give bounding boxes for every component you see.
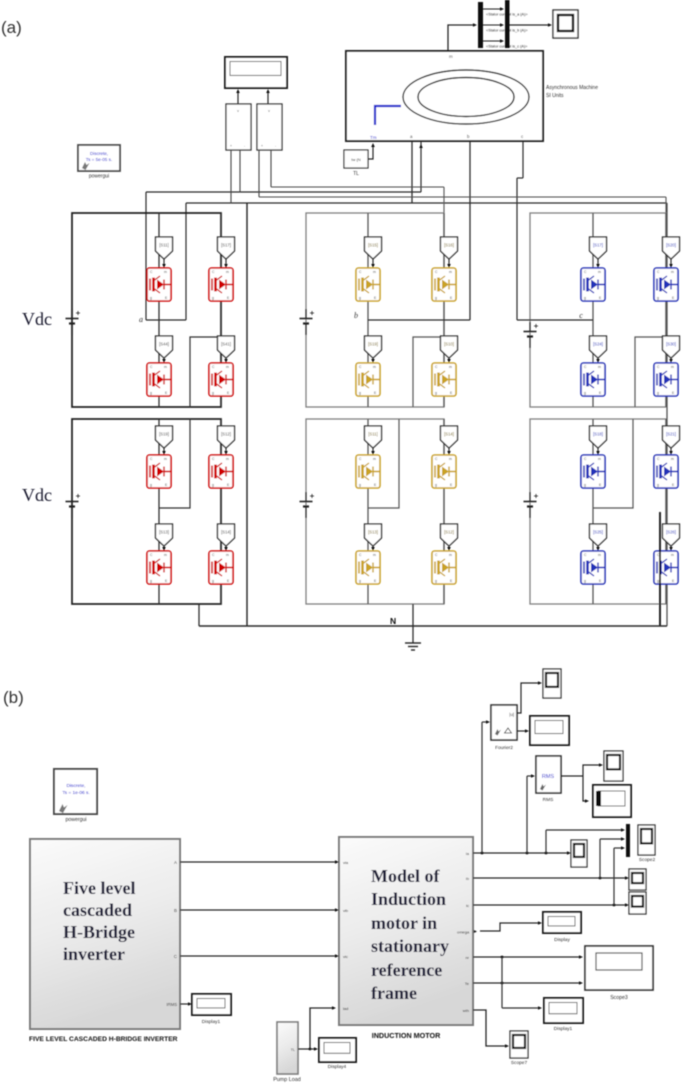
svg-text:[S19]: [S19] bbox=[368, 342, 378, 347]
wire gate arrow S12 bbox=[225, 448, 227, 454]
arrowhead B bbox=[335, 908, 339, 912]
wire gate arrow S11 bbox=[163, 259, 165, 267]
svg-text:m: m bbox=[671, 553, 674, 557]
arrowhead mux3 bbox=[621, 846, 625, 850]
wire bus selector signal 3 bbox=[483, 40, 501, 42]
IGBT S18 (blue cell2 left top) bbox=[581, 455, 605, 488]
svg-text:[S41]: [S41] bbox=[221, 342, 231, 347]
arrowhead IRMS bbox=[188, 1002, 192, 1006]
from tag S19 (red cell2 left top) bbox=[156, 426, 173, 448]
wire gate arrow S10 bbox=[448, 358, 450, 362]
svg-text:Pump Load: Pump Load bbox=[273, 1077, 301, 1083]
wire yellow leg to ground bbox=[412, 604, 414, 643]
svg-text:m: m bbox=[449, 54, 453, 59]
svg-text:Ts = 1e-06 s.: Ts = 1e-06 s. bbox=[62, 790, 90, 796]
wire right leg blue cell2 bbox=[665, 419, 667, 604]
svg-text:Vdc: Vdc bbox=[22, 309, 52, 329]
arrowhead fourier bbox=[486, 720, 490, 724]
bus selector bbox=[478, 2, 483, 48]
powergui block (figure a) bbox=[78, 145, 120, 180]
wire ia up to RMS bbox=[526, 776, 528, 853]
IGBT S14 (red cell2 right bottom) bbox=[209, 551, 233, 584]
svg-text:g: g bbox=[435, 483, 437, 487]
svg-text:[S25]: [S25] bbox=[593, 530, 603, 535]
svg-text:TL: TL bbox=[291, 1048, 295, 1052]
svg-text:m: m bbox=[598, 457, 601, 461]
wire motor wth to Scope7 bbox=[473, 1010, 506, 1046]
from tag S41 (red cell1 right bottom) bbox=[218, 336, 235, 358]
DC source blue cell1 bbox=[524, 322, 539, 348]
display block Display (top) bbox=[225, 57, 287, 88]
junction pump load bbox=[309, 1048, 312, 1051]
svg-text:b: b bbox=[354, 311, 358, 320]
wire node a riser right bbox=[185, 203, 187, 320]
DC source red cell2 bbox=[66, 492, 81, 518]
wire mid jog blue cell2 bbox=[593, 419, 633, 508]
svg-text:m: m bbox=[671, 365, 674, 369]
wire red cell2 to N bus bbox=[198, 604, 200, 626]
wire node a riser left bbox=[145, 192, 147, 320]
svg-text:g: g bbox=[150, 296, 152, 300]
from tag S14 (red cell2 right bottom) bbox=[218, 524, 235, 546]
wire inverter A to motor bbox=[180, 861, 336, 863]
svg-text:[S21]: [S21] bbox=[666, 432, 676, 437]
svg-text:m: m bbox=[671, 457, 674, 461]
IGBT S17 (blue cell1 left top) bbox=[581, 268, 605, 301]
arrowhead scope5 bbox=[538, 681, 542, 685]
wire N bus bbox=[199, 625, 667, 627]
wire gate arrow S19 bbox=[372, 358, 374, 362]
wire fourier out2 to Display2 bbox=[517, 730, 526, 732]
svg-text:g: g bbox=[584, 391, 586, 395]
IGBT S44 (red cell1 left bottom) bbox=[147, 363, 171, 396]
arrowhead rms bbox=[531, 774, 535, 778]
svg-text:N: N bbox=[390, 616, 396, 626]
scope block Scope5 bbox=[543, 669, 561, 698]
svg-text:cascaded: cascaded bbox=[63, 900, 132, 920]
svg-text:m: m bbox=[226, 365, 229, 369]
svg-text:g: g bbox=[150, 579, 152, 583]
arrowhead display3 bbox=[585, 799, 589, 803]
svg-text:[S15]: [S15] bbox=[368, 243, 378, 248]
svg-text:m: m bbox=[598, 365, 601, 369]
svg-text:m: m bbox=[164, 457, 167, 461]
from tag S16 (yellow cell1 right top) bbox=[441, 237, 458, 259]
constant block TL bbox=[344, 150, 368, 177]
svg-text:[S12]: [S12] bbox=[221, 432, 231, 437]
wire machine m to bus selector bbox=[448, 25, 474, 51]
from tag S11 (red cell1 left top) bbox=[156, 237, 173, 259]
svg-text:m: m bbox=[449, 270, 452, 274]
svg-text:|u|: |u| bbox=[509, 712, 514, 717]
svg-text:inverter: inverter bbox=[63, 944, 125, 964]
wire gate arrow S30 bbox=[670, 358, 672, 362]
from tag S12 (red cell2 right top) bbox=[218, 426, 235, 448]
powergui block (figure b) bbox=[54, 769, 97, 823]
svg-text:IRMS: IRMS bbox=[167, 1002, 178, 1007]
wire bus y187 bbox=[271, 186, 444, 188]
ground bbox=[405, 643, 421, 650]
wire mid jog blue cell1 bbox=[635, 337, 666, 407]
asynchronous machine block bbox=[346, 51, 543, 141]
wire TL to machine Tm bbox=[368, 145, 373, 159]
wire gate arrow S18 bbox=[597, 448, 599, 454]
junction ia-fourier bbox=[481, 852, 484, 855]
wire mid jog yellow cell1 bbox=[413, 337, 444, 407]
wire gate arrow S41 bbox=[225, 358, 227, 362]
svg-text:m: m bbox=[598, 270, 601, 274]
svg-text:SI Units: SI Units bbox=[546, 93, 564, 99]
wire nr-Te-Display4b vertical bbox=[501, 957, 503, 1008]
wire motor nr to Scope3 bbox=[473, 956, 580, 958]
wire VM1 minus pin down bbox=[239, 150, 241, 192]
arrowhead display bbox=[538, 921, 542, 925]
wire VM2 minus pin down bbox=[270, 150, 272, 187]
wire gate arrow S11 bbox=[372, 448, 374, 454]
wire machine port c down bbox=[522, 141, 524, 178]
arrowhead nr bbox=[579, 955, 583, 959]
from tag S15 (yellow cell1 left top) bbox=[365, 237, 382, 259]
wire VM1 to Display bbox=[237, 91, 239, 104]
svg-text:m: m bbox=[226, 270, 229, 274]
mux bbox=[505, 0, 510, 48]
svg-text:Display1: Display1 bbox=[554, 1026, 573, 1032]
wire omega to Display bbox=[480, 923, 539, 931]
scope block Scope7 bbox=[510, 1031, 528, 1058]
omega port arrow bbox=[474, 930, 477, 933]
svg-text:[S11]: [S11] bbox=[159, 243, 168, 248]
wire ia to mux input1 bbox=[546, 829, 622, 831]
svg-text:v: v bbox=[268, 109, 270, 113]
wire gate arrow S17 bbox=[597, 259, 599, 267]
svg-text:motor in: motor in bbox=[371, 913, 437, 933]
svg-text:m: m bbox=[598, 553, 601, 557]
wire yellow right leg top riser bbox=[443, 187, 445, 213]
svg-text:m: m bbox=[164, 365, 167, 369]
svg-text:[S12]: [S12] bbox=[444, 530, 454, 535]
from tag S24 (blue cell1 left bottom) bbox=[590, 336, 607, 358]
wire bus selector signal 1 bbox=[483, 8, 501, 10]
svg-text:reference: reference bbox=[371, 960, 442, 980]
junction Te bbox=[501, 982, 504, 985]
five level cascaded H-bridge inverter block bbox=[30, 839, 180, 1029]
wire machine port b down bbox=[469, 141, 471, 320]
arrowhead C bbox=[335, 954, 339, 958]
svg-text:-: - bbox=[275, 144, 276, 148]
H-bridge cell red 1 outline bbox=[72, 213, 221, 407]
wire ic up to mux bbox=[613, 848, 615, 905]
wire mid jog red cell2 bbox=[159, 419, 190, 508]
from tag S25 (blue cell2 left bottom) bbox=[590, 524, 607, 546]
svg-text:Display4: Display4 bbox=[328, 1064, 347, 1070]
arrowhead Te bbox=[579, 981, 583, 985]
voltage measurement block VM2 bbox=[257, 104, 282, 150]
svg-text:[S13]: [S13] bbox=[159, 530, 169, 535]
IGBT S19 (yellow cell1 left bottom) bbox=[356, 363, 380, 396]
display block Display2 bbox=[530, 716, 569, 745]
wire ia up to mux bbox=[545, 830, 547, 853]
from tag S26 (blue cell2 right bottom) bbox=[663, 524, 680, 546]
junction ia-mux bbox=[545, 852, 548, 855]
svg-text:m: m bbox=[373, 270, 376, 274]
scope block ScopeA bbox=[629, 869, 646, 890]
wire motor Te bbox=[473, 982, 580, 984]
display block Display3 bbox=[593, 785, 631, 817]
svg-text:m: m bbox=[449, 457, 452, 461]
scope block Scope4 bbox=[571, 840, 587, 867]
wire blue right leg to N bus bbox=[659, 512, 661, 626]
arrowhead scope6 bbox=[599, 763, 603, 767]
wire mid jog yellow cell2 bbox=[368, 419, 399, 508]
wire node c riser bbox=[516, 178, 518, 320]
pump load block bbox=[277, 1022, 298, 1074]
IGBT S16 (yellow cell1 right top) bbox=[432, 268, 456, 301]
wire motor ic bbox=[473, 904, 626, 906]
arrowhead into motor lad bbox=[332, 1006, 336, 1010]
wire right leg blue cell1 bbox=[665, 213, 667, 407]
svg-text:[S14]: [S14] bbox=[444, 432, 454, 437]
svg-text:via: via bbox=[343, 860, 349, 865]
IGBT S17 (red cell1 right top) bbox=[209, 268, 233, 301]
svg-text:g: g bbox=[359, 296, 361, 300]
scope block Scope3 bbox=[585, 946, 653, 990]
wire inverter C to motor bbox=[180, 955, 336, 957]
svg-text:m: m bbox=[226, 553, 229, 557]
wire long vertical to N bus bbox=[246, 203, 248, 626]
svg-text:Five level: Five level bbox=[63, 878, 135, 898]
svg-text:m: m bbox=[373, 365, 376, 369]
IGBT S14 (yellow cell2 right top) bbox=[432, 455, 456, 488]
junction ia-rms bbox=[526, 852, 529, 855]
wire gate arrow S17 bbox=[225, 259, 227, 267]
wire ib to mux input2 bbox=[600, 838, 622, 840]
svg-text:Tm: Tm bbox=[370, 135, 377, 140]
svg-text:ic: ic bbox=[466, 903, 469, 908]
svg-text:[S17]: [S17] bbox=[221, 243, 231, 248]
display block Display1 bbox=[192, 994, 231, 1015]
svg-text:v: v bbox=[237, 109, 239, 113]
wire bus y192 bbox=[146, 191, 421, 193]
svg-text:g: g bbox=[212, 483, 214, 487]
svg-text:[S30]: [S30] bbox=[666, 342, 676, 347]
wire right leg yellow cell2 bbox=[443, 419, 445, 604]
IGBT S26 (blue cell2 right bottom) bbox=[654, 551, 678, 584]
svg-text:g: g bbox=[435, 296, 437, 300]
wire gate arrow S20 bbox=[670, 259, 672, 267]
wire RMS to scope6 bbox=[583, 765, 600, 776]
wire left leg red cell2 bbox=[158, 419, 160, 604]
svg-text:[S26]: [S26] bbox=[666, 530, 676, 535]
svg-text:g: g bbox=[359, 391, 361, 395]
svg-text:[S44]: [S44] bbox=[159, 342, 169, 347]
svg-text:Display: Display bbox=[554, 937, 570, 943]
from tag S10 (yellow cell1 right bottom) bbox=[441, 336, 458, 358]
from tag S21 (blue cell2 right top) bbox=[663, 426, 680, 448]
svg-text:Scope3: Scope3 bbox=[610, 995, 628, 1001]
svg-text:g: g bbox=[359, 579, 361, 583]
wire left leg blue cell2 bbox=[592, 419, 594, 604]
wire gate arrow S15 bbox=[372, 259, 374, 267]
svg-text:frame: frame bbox=[371, 983, 417, 1003]
wire gate arrow S16 bbox=[448, 259, 450, 267]
wire RMS to Display3 bbox=[583, 776, 586, 801]
wire inverter B to motor bbox=[180, 909, 336, 911]
svg-text:tw (N: tw (N bbox=[351, 157, 360, 162]
svg-text:Model of: Model of bbox=[371, 866, 440, 886]
DC source yellow cell2 bbox=[300, 492, 315, 518]
svg-text:stationary: stationary bbox=[371, 936, 449, 956]
scope block Scope6 bbox=[604, 751, 623, 781]
svg-text:[S24]: [S24] bbox=[593, 342, 603, 347]
from tag S19 (yellow cell1 left bottom) bbox=[365, 336, 382, 358]
scope block Scope2 bbox=[638, 825, 655, 855]
wire gate arrow S12 bbox=[448, 546, 450, 550]
from tag S18 (blue cell2 left top) bbox=[590, 426, 607, 448]
svg-text:Scope2: Scope2 bbox=[639, 857, 656, 863]
svg-text:[S14]: [S14] bbox=[221, 530, 231, 535]
H-bridge cell blue 2 outline bbox=[530, 419, 666, 604]
arrowhead ib bbox=[625, 876, 629, 880]
svg-text:m: m bbox=[164, 553, 167, 557]
IGBT S10 (yellow cell1 right bottom) bbox=[432, 363, 456, 396]
svg-text:powergui: powergui bbox=[89, 174, 109, 180]
svg-text:m: m bbox=[373, 553, 376, 557]
svg-text:g: g bbox=[584, 483, 586, 487]
svg-text:[S13]: [S13] bbox=[368, 530, 378, 535]
svg-text:[S11]: [S11] bbox=[368, 432, 377, 437]
wire into RMS bbox=[527, 775, 532, 777]
svg-text:[S10]: [S10] bbox=[444, 342, 454, 347]
svg-text:RMS: RMS bbox=[542, 774, 555, 780]
wire pump load output bbox=[298, 1008, 333, 1049]
H-bridge cell red 2 outline bbox=[72, 419, 221, 604]
IGBT S13 (yellow cell2 left bottom) bbox=[356, 551, 380, 584]
svg-text:m: m bbox=[671, 270, 674, 274]
H-bridge cell yellow 1 outline bbox=[306, 213, 444, 407]
svg-text:Asynchronous Machine: Asynchronous Machine bbox=[546, 85, 598, 91]
svg-text:m: m bbox=[226, 457, 229, 461]
svg-text:Discrete,: Discrete, bbox=[67, 783, 86, 789]
arrowhead ia scope bbox=[567, 851, 571, 855]
svg-text:B: B bbox=[174, 908, 177, 913]
svg-text:g: g bbox=[657, 483, 659, 487]
wire ic to mux input3 bbox=[614, 847, 622, 849]
svg-text:m: m bbox=[449, 553, 452, 557]
wire node a horizontal bbox=[146, 319, 186, 321]
svg-text:Fourier2: Fourier2 bbox=[495, 745, 513, 751]
wire fourier out1 to scope bbox=[517, 683, 539, 713]
wire right vertical to N bus bbox=[666, 203, 668, 626]
svg-text:g: g bbox=[657, 296, 659, 300]
arrowhead into machine a bbox=[419, 144, 423, 148]
from tag S12 (yellow cell2 right bottom) bbox=[441, 524, 458, 546]
wire machine port a stub bbox=[420, 141, 422, 192]
svg-text:wth: wth bbox=[463, 1008, 469, 1013]
wire motor ia bbox=[473, 852, 568, 854]
IGBT S11 (red cell1 left top) bbox=[147, 268, 171, 301]
wire ia up to Fourier bbox=[481, 722, 483, 853]
svg-text:g: g bbox=[212, 579, 214, 583]
scope block Scope1 bbox=[553, 10, 578, 38]
wire ib up to mux bbox=[599, 839, 601, 878]
scope block ScopeB bbox=[629, 892, 646, 914]
DC source blue cell2 bbox=[524, 492, 539, 518]
wire bus y178 bbox=[517, 177, 523, 179]
IGBT S13 (red cell2 left bottom) bbox=[147, 551, 171, 584]
svg-text:-: - bbox=[244, 144, 245, 148]
H-bridge cell yellow 2 outline bbox=[306, 419, 444, 604]
svg-text:(b): (b) bbox=[3, 688, 24, 707]
svg-text:H-Bridge: H-Bridge bbox=[63, 922, 135, 942]
svg-text:a: a bbox=[139, 315, 143, 324]
from tag S11 (yellow cell2 left top) bbox=[365, 426, 382, 448]
wire left leg yellow cell1 bbox=[367, 213, 369, 407]
svg-text:vib: vib bbox=[343, 908, 349, 913]
svg-text:Scope7: Scope7 bbox=[511, 1060, 528, 1066]
junction ic bbox=[613, 904, 616, 907]
svg-text:[S17]: [S17] bbox=[593, 243, 603, 248]
svg-text:vic: vic bbox=[343, 954, 348, 959]
wire VM2 plus pin down bbox=[258, 150, 260, 197]
svg-text:INDUCTION MOTOR: INDUCTION MOTOR bbox=[372, 1031, 441, 1040]
svg-text:A: A bbox=[174, 860, 177, 865]
svg-text:g: g bbox=[212, 296, 214, 300]
wire into Fourier bbox=[482, 721, 487, 723]
induction motor block bbox=[339, 837, 473, 1025]
wire motor ib bbox=[473, 877, 626, 879]
svg-text:+: + bbox=[261, 144, 263, 148]
wire to Display4b bbox=[502, 1007, 539, 1009]
IGBT S11 (yellow cell2 left top) bbox=[356, 455, 380, 488]
display block Display bbox=[543, 912, 581, 933]
svg-text:g: g bbox=[584, 579, 586, 583]
wire blue right leg top riser bbox=[665, 197, 667, 213]
svg-text:g: g bbox=[212, 391, 214, 395]
wire gate arrow S14 bbox=[225, 546, 227, 550]
wire mux to Scope1 bbox=[510, 24, 551, 26]
svg-text:omega: omega bbox=[457, 930, 470, 935]
svg-text:[S20]: [S20] bbox=[666, 243, 676, 248]
svg-text:[S16]: [S16] bbox=[444, 243, 454, 248]
IGBT S20 (blue cell1 right top) bbox=[654, 268, 678, 301]
RMS block bbox=[536, 756, 561, 793]
wire gate arrow S19 bbox=[163, 448, 165, 454]
wire VM2 to Display bbox=[267, 91, 269, 104]
wire right leg red cell2 bbox=[220, 419, 222, 604]
svg-text:g: g bbox=[657, 579, 659, 583]
svg-text:Induction: Induction bbox=[371, 889, 446, 909]
wire RMS output bbox=[561, 775, 583, 777]
svg-text:Display1: Display1 bbox=[202, 1019, 221, 1025]
DC source red cell1 bbox=[66, 309, 81, 335]
DC source yellow cell1 bbox=[300, 309, 315, 335]
wire right leg yellow cell1 bbox=[443, 213, 445, 407]
arrowhead scope7 bbox=[505, 1044, 509, 1048]
junction ib bbox=[599, 877, 602, 880]
wire gate arrow S13 bbox=[163, 546, 165, 550]
svg-text:[S18]: [S18] bbox=[593, 432, 603, 437]
display block Display5 bbox=[544, 998, 583, 1023]
svg-text:g: g bbox=[150, 483, 152, 487]
wire node b horizontal bbox=[368, 319, 470, 321]
wire gate arrow S44 bbox=[163, 358, 165, 362]
svg-text:powergui: powergui bbox=[65, 817, 86, 823]
wire gate arrow S13 bbox=[372, 546, 374, 550]
svg-text:m: m bbox=[164, 270, 167, 274]
svg-text:m: m bbox=[449, 365, 452, 369]
arrowhead ic bbox=[625, 903, 629, 907]
arrowhead mux2 bbox=[621, 837, 625, 841]
